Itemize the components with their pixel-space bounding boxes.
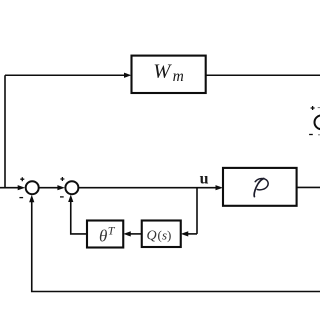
- wire S2 output to plant P: [79, 187, 217, 189]
- svg-text:θ: θ: [99, 227, 107, 246]
- svg-text:): ): [167, 228, 171, 243]
- minus sign at S1: [19, 197, 23, 199]
- wire u tap into Q(s): [187, 233, 198, 235]
- node branch point A (input tap to reference model): [4, 75, 6, 187]
- block Wm (reference model): [132, 56, 206, 93]
- partial plus sign at edge: [318, 107, 320, 109]
- svg-text:Q: Q: [147, 229, 157, 244]
- node B tap of u to Q(s): [196, 188, 198, 234]
- block Q(s): [142, 221, 181, 248]
- wire Q(s) output into thetaT: [129, 233, 142, 235]
- wire Wm output to right edge: [206, 74, 320, 76]
- block thetaT (adaptive gain): [87, 221, 123, 248]
- svg-text:u: u: [200, 170, 209, 187]
- wire S1 to S2: [39, 187, 59, 189]
- block P (plant): [223, 168, 297, 206]
- summing junction S3 (partial, at right edge): [315, 115, 320, 129]
- plus sign at S2: [60, 177, 64, 181]
- partial minus sign at edge: [318, 134, 320, 136]
- wire P output to right edge: [297, 186, 320, 188]
- svg-text:m: m: [173, 68, 184, 85]
- minus sign at S3: [309, 134, 313, 136]
- summing junction S1: [26, 181, 39, 194]
- minus sign at S2: [60, 196, 64, 198]
- wire branch to Wm input: [5, 74, 125, 76]
- plus sign at S1: [20, 177, 24, 181]
- summing junction S2: [65, 181, 78, 194]
- wire thetaT output up into S2 (negative input): [71, 200, 87, 234]
- wire r input into summing junction S1: [0, 187, 20, 189]
- wire outer feedback from right edge along bottom into S1 (negative input): [32, 200, 320, 292]
- plus sign at S3: [311, 106, 315, 110]
- svg-text:W: W: [153, 60, 172, 82]
